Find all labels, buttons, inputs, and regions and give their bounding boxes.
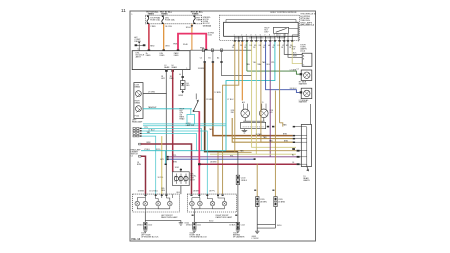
G_RIGHTCOL: [256, 45, 312, 167]
bundle end connector marks: [297, 150, 300, 165]
bulb A4: [168, 201, 173, 206]
connector mark on line at 203: [202, 49, 204, 52]
R3 pin stubs: [295, 127, 301, 143]
R3 bottom pin: [292, 148, 295, 150]
DRL module box: [132, 51, 190, 70]
svg-text:S220: S220: [156, 149, 160, 151]
wire pale BCM pin6: [255, 42, 257, 155]
svg-text:C2: C2: [131, 155, 133, 157]
svg-text:11: 11: [121, 8, 126, 13]
wire tan right vertical 2: [274, 91, 276, 197]
tick label left of vertical 1: [254, 190, 256, 191]
svg-text:C100 A2: C100 A2: [203, 25, 212, 28]
ground mid G103: [236, 230, 240, 232]
svg-text:2: 2: [241, 34, 242, 36]
node dot pink2: [205, 49, 208, 51]
lamp DRL indicator left: [241, 109, 250, 118]
svg-text:TAN/WHT: TAN/WHT: [148, 106, 157, 109]
cyan bus row 3: [142, 131, 208, 194]
svg-text:OF ENGINE BLOCK: OF ENGINE BLOCK: [141, 237, 159, 239]
wire tan BCM pin10 to R3: [279, 42, 281, 123]
ground drop lamp B: [193, 212, 195, 222]
wire tan bend into R3: [280, 123, 283, 127]
svg-text:B2: B2: [240, 45, 242, 47]
wire maroon dimmer to lampB: [141, 144, 192, 194]
wire dark brown: [205, 63, 238, 152]
svg-text:A5: A5: [306, 99, 308, 102]
svg-text:18 YEL: 18 YEL: [158, 177, 164, 179]
headlamp switch symbol: [195, 94, 197, 100]
svg-text:1: 1: [186, 68, 187, 70]
svg-text:LT GRN: LT GRN: [290, 70, 297, 72]
join wire lamp B to mid drop: [194, 221, 238, 223]
connector marks on tan rows: [267, 126, 269, 128]
svg-text:PNK: PNK: [173, 44, 178, 46]
wire teal bundle row: [141, 150, 226, 152]
svg-text:18 BRN: 18 BRN: [260, 201, 267, 203]
svg-text:PARK: PARK: [196, 18, 202, 21]
inline connector on mid drop: [236, 222, 239, 229]
node dot pink: [177, 49, 180, 51]
svg-text:C111: C111: [197, 224, 201, 226]
relay switch blade: [276, 28, 287, 32]
svg-text:DK BLU: DK BLU: [290, 88, 297, 90]
flat connector box: [241, 122, 266, 128]
bulb high beam: [136, 106, 142, 112]
svg-text:18 BLK: 18 BLK: [186, 224, 193, 226]
BCM internal top wire: [225, 20, 227, 23]
wire blue bundle row: [168, 158, 255, 160]
diode tail: [182, 90, 184, 92]
svg-text:LT GRN: LT GRN: [148, 92, 155, 94]
left bulb feed stubs: [242, 104, 244, 110]
bracket to box: [300, 151, 302, 165]
svg-text:PPL: PPL: [271, 62, 274, 64]
svg-text:YEL: YEL: [253, 62, 256, 64]
teal stub end mark: [165, 164, 167, 165]
wire tan BCM pin1: [234, 42, 236, 153]
svg-text:S141: S141: [208, 35, 212, 37]
wire purple bundle row: [168, 156, 297, 158]
inline connector C2: [236, 175, 239, 184]
svg-text:PARK/TURN LAMP: PARK/TURN LAMP: [216, 216, 233, 219]
wire pink drop to lamp B: [198, 111, 200, 194]
svg-text:18 BLK: 18 BLK: [229, 224, 236, 226]
svg-text:RED: RED: [150, 46, 155, 48]
box R1 rear lamps junction: [302, 53, 312, 66]
svg-text:7: 7: [264, 34, 265, 36]
wire gray BCM pin12 to R1: [288, 42, 302, 58]
lamp LP2 pin: [300, 91, 303, 93]
svg-text:B203: B203: [179, 95, 183, 97]
inline connector right1: [256, 197, 259, 207]
svg-text:RED: RED: [170, 78, 175, 80]
svg-text:18: 18: [232, 47, 234, 49]
bulb tails to bus: [244, 118, 246, 122]
G_GROUNDS: [137, 212, 245, 239]
svg-text:A4: A4: [217, 56, 219, 59]
svg-text:BEAM: BEAM: [135, 85, 141, 88]
inline connector right2: [274, 197, 277, 207]
cyan bus row 1: [143, 123, 226, 125]
right bulb feed stubs: [261, 104, 263, 110]
bulb low beam: [136, 91, 142, 97]
dimmer lower pin C: [139, 143, 141, 145]
dimmer block pin ticks: [140, 128, 142, 137]
fuse F1: [147, 16, 149, 23]
svg-text:HEAD: HEAD: [179, 118, 185, 121]
wire maroon dimmer to lampA: [141, 156, 146, 194]
wire tan BCM pin5: [261, 42, 293, 143]
svg-text:18: 18: [289, 47, 291, 49]
wire blue BCM pin7 to lamp2: [266, 42, 300, 93]
underhood fuse block dashed box: [145, 15, 201, 24]
pin marks under box: [165, 70, 168, 72]
teal option loop box: [187, 115, 195, 125]
svg-text:6: 6: [260, 34, 261, 36]
svg-text:C2: C2: [200, 57, 202, 59]
svg-text:18 BRN: 18 BRN: [278, 201, 285, 203]
BCM solid box U1: [224, 22, 299, 36]
wire tan bundle row right: [226, 150, 297, 152]
svg-text:LT BLU: LT BLU: [144, 149, 151, 151]
connector row under C100 line: [205, 50, 222, 63]
R3 pin marks: [293, 126, 295, 143]
connector C210 marks: [204, 61, 223, 63]
branch to G102: [145, 221, 181, 223]
wire pale yellow bundle row: [210, 153, 296, 155]
connector mark on line at 212: [211, 49, 213, 52]
wire orange from fuse F3: [191, 24, 193, 50]
flasher socket 1: [174, 177, 178, 181]
bulb B4: [222, 201, 227, 206]
svg-text:18 LT BLU: 18 LT BLU: [149, 191, 158, 193]
bulb B1: [190, 201, 195, 206]
teal stub to bundle: [165, 151, 167, 165]
ground G100: [192, 230, 196, 232]
G_BCM: [220, 12, 317, 41]
wire dark mid vertical with connector: [237, 152, 239, 176]
wire orange from fuse F2: [163, 24, 165, 51]
svg-text:D4: D4: [250, 45, 252, 47]
svg-text:2 RED: 2 RED: [150, 26, 156, 28]
lamp assembly B dashed box: [187, 194, 236, 212]
wire pale BCM pin13 to R1: [292, 42, 302, 64]
right headlamp box R3: [301, 125, 311, 167]
BCM internal pin brackets: [235, 29, 298, 42]
svg-text:ASSY: ASSY: [190, 179, 196, 182]
wire tan BCM pin3 to R3: [246, 42, 248, 72]
svg-text:BODY CONTROL MODULE: BODY CONTROL MODULE: [271, 12, 298, 14]
svg-text:18 BRN: 18 BRN: [198, 68, 205, 70]
ground right G401: [255, 231, 259, 233]
svg-text:18 PPL: 18 PPL: [209, 191, 215, 193]
lamp R LP1 box: [301, 70, 312, 80]
tick label left of vertical 2: [272, 190, 274, 191]
svg-text:9: 9: [274, 34, 275, 36]
wire pale BCM pin4: [252, 42, 296, 148]
flasher socket arrows: [174, 176, 185, 181]
svg-text:C110: C110: [148, 224, 152, 226]
node dot red: [148, 49, 151, 51]
flasher socket 2: [179, 177, 183, 181]
bulb LP1: [304, 72, 310, 78]
svg-text:M3: M3: [286, 45, 289, 47]
pin line with end marks: [135, 44, 145, 46]
bottom double horizontals: [257, 224, 275, 226]
svg-text:(DRL) SEE 11-2: (DRL) SEE 11-2: [300, 25, 314, 27]
svg-text:11: 11: [283, 34, 285, 36]
svg-text:C1: C1: [297, 68, 299, 70]
svg-text:12 BRN: 12 BRN: [214, 92, 221, 94]
fuse F3: [193, 16, 195, 23]
junction dot pink/maroon: [198, 163, 201, 165]
node S161: [180, 169, 182, 170]
wire tan mid: [232, 118, 293, 142]
svg-text:OF ENGINE BLOCK: OF ENGINE BLOCK: [189, 237, 207, 239]
svg-text:4: 4: [250, 34, 251, 36]
svg-text:18 TAN: 18 TAN: [256, 133, 263, 136]
svg-text:C2: C2: [137, 48, 139, 50]
svg-text:A8: A8: [292, 148, 294, 151]
cyan bus row 4: [142, 134, 197, 151]
lamp LP1 pin: [300, 73, 303, 75]
svg-text:C112: C112: [241, 224, 245, 226]
cyan bus row 1b: [143, 125, 226, 127]
turn signal flasher box: [173, 172, 190, 186]
svg-text:18 BLK: 18 BLK: [137, 224, 144, 226]
svg-text:LT KICK: LT KICK: [252, 238, 260, 240]
svg-text:FEED: FEED: [146, 55, 151, 57]
svg-text:B2: B2: [292, 155, 294, 157]
svg-text:PPL: PPL: [173, 155, 176, 157]
ground G102: [179, 223, 183, 225]
pin stub OUT with diode D1: [182, 70, 184, 81]
wire teal headlamp high: [143, 108, 192, 110]
wire black from LP2 to R3: [310, 104, 312, 125]
bulb B3: [210, 201, 215, 206]
bulb LP2: [304, 90, 310, 96]
tan bundle wire labels row: [246, 61, 274, 66]
wire tan drop to lamp B: [217, 152, 219, 194]
svg-text:H8: H8: [268, 45, 270, 47]
wire crimson from DRL HI: [172, 70, 174, 172]
blue row end mark: [254, 158, 256, 160]
BCM dashed box: [220, 15, 300, 40]
flasher feed wire: [180, 168, 182, 172]
wire orange BCM pin2: [241, 42, 243, 101]
ground G101: [143, 230, 147, 232]
svg-text:C4: C4: [292, 162, 294, 164]
wire yellow drop to lamp A: [161, 136, 163, 194]
BCM pin connector marks: [234, 40, 294, 41]
wire tan right vertical 1: [256, 163, 258, 196]
svg-text:S161: S161: [175, 167, 179, 169]
lamp B internal wires: [192, 194, 225, 212]
wire teal vertical: [226, 42, 275, 151]
connector tail down: [237, 185, 239, 230]
svg-text:8: 8: [269, 34, 270, 36]
svg-text:HEADLAMP: HEADLAMP: [132, 120, 143, 123]
svg-text:18 BRN: 18 BRN: [138, 191, 145, 193]
svg-text:K1: K1: [278, 45, 280, 47]
wire green to right lamp1: [247, 71, 300, 74]
lamp A entry pin marks: [145, 195, 168, 196]
arrow to rear lamps: [307, 167, 309, 171]
svg-text:P100: P100: [135, 115, 139, 117]
headlamp dimmer switch connector rows: [133, 128, 139, 137]
svg-text:10: 10: [278, 34, 280, 36]
bulb B2: [198, 201, 203, 206]
tick label on B drop: [192, 215, 194, 216]
svg-text:PARK/TURN LAMP: PARK/TURN LAMP: [161, 216, 178, 219]
svg-text:FIG. 14: FIG. 14: [132, 237, 141, 241]
svg-text:18: 18: [281, 47, 283, 49]
svg-text:PPL: PPL: [230, 155, 233, 157]
svg-text:18 BLK: 18 BLK: [241, 180, 248, 182]
cyan bus row 2: [142, 129, 202, 151]
svg-text:1: 1: [234, 34, 235, 36]
svg-text:F6: F6: [259, 45, 261, 47]
splice triangle below text: [138, 42, 140, 44]
inline connector on lamp B drop: [193, 222, 196, 229]
svg-text:18: 18: [244, 47, 246, 49]
bulb A1: [135, 201, 140, 206]
ground below flat box: [243, 129, 245, 131]
svg-text:S130: S130: [209, 220, 213, 222]
lamp indicator right: [260, 109, 269, 118]
wire brown: [213, 63, 293, 136]
headlamp LH box: [134, 83, 143, 119]
relay sub-box inside BCM: [274, 27, 289, 33]
svg-text:BEAM: BEAM: [172, 66, 178, 69]
G_MIDWIRES: [138, 42, 303, 195]
lamp assembly A dashed box: [133, 194, 180, 212]
svg-text:FUSE 20A: FUSE 20A: [165, 18, 175, 21]
svg-text:18 BRN: 18 BRN: [210, 161, 217, 163]
svg-text:5: 5: [255, 34, 256, 36]
svg-text:MARKER: MARKER: [299, 83, 308, 86]
svg-text:18 ORG: 18 ORG: [165, 26, 172, 28]
connector mark on line at 221: [220, 49, 222, 52]
bulb ground bus: [243, 120, 264, 122]
G_TOPLEFT: [134, 11, 251, 52]
cyan drop to lamp A: [142, 136, 156, 194]
bundle left end marks: [167, 156, 169, 158]
svg-text:18: 18: [272, 47, 274, 49]
diode D1: [180, 81, 185, 90]
wire gray BCM pin11 to R1: [284, 42, 302, 55]
R3 internal pin stubs: [301, 127, 307, 165]
svg-text:FUSE 15A: FUSE 15A: [150, 18, 160, 21]
svg-text:LT BLU: LT BLU: [227, 99, 234, 101]
wire tan BCM pin1b to lamp B: [223, 42, 239, 195]
bulb A3: [156, 201, 161, 206]
svg-text:ORG: ORG: [165, 46, 170, 48]
flasher socket 3: [184, 177, 188, 181]
lamp B entry pin marks: [191, 195, 224, 196]
flasher tail wire: [180, 186, 182, 195]
svg-text:FEED: FEED: [174, 55, 179, 57]
wire red from fuse F1: [148, 24, 150, 51]
svg-text:PPL: PPL: [145, 127, 148, 129]
R3 internal bus: [306, 127, 308, 165]
svg-text:B1: B1: [208, 57, 210, 59]
svg-text:S410: S410: [277, 225, 281, 227]
splice node S1: [191, 25, 194, 27]
lamp R LP2 box: [301, 88, 312, 98]
svg-text:3: 3: [246, 34, 247, 36]
G_LEFTBOX: [131, 51, 192, 194]
wire tan bundle row short: [218, 151, 252, 153]
svg-text:I/P CARRIER: I/P CARRIER: [233, 236, 245, 239]
svg-text:(11-4): (11-4): [300, 51, 305, 53]
connector line C100: [190, 49, 252, 51]
node dot orange: [162, 49, 165, 51]
wire black headlamp low: [143, 93, 166, 95]
wire black jog: [222, 63, 252, 76]
wire gray from DRL LO: [165, 70, 167, 195]
svg-text:LAMPS: LAMPS: [303, 179, 310, 182]
dimmer lower pin D: [139, 155, 141, 157]
frame border: [130, 11, 316, 241]
svg-text:BEAM: BEAM: [164, 66, 170, 69]
misc wire id labels: [160, 44, 292, 163]
tick label on mid drop: [235, 215, 237, 216]
tails to bottom joins: [256, 207, 258, 225]
inline connector on lamp A drop: [144, 222, 147, 229]
BCM pin stubs: [235, 36, 292, 41]
lamp A internal wires: [137, 194, 172, 212]
svg-text:12: 12: [287, 34, 289, 36]
svg-text:12 BRN: 12 BRN: [206, 99, 213, 101]
svg-text:FEED: FEED: [160, 55, 165, 57]
G_BUNDLE: [141, 91, 310, 241]
G_LAMPS: [133, 194, 237, 219]
bulb A2: [143, 201, 148, 206]
svg-text:BEAM: BEAM: [135, 102, 141, 105]
wire purple BCM pin8: [269, 42, 271, 157]
svg-text:RELAY: RELAY: [134, 40, 141, 43]
svg-text:18: 18: [263, 47, 265, 49]
ground drop lamp A: [144, 212, 146, 222]
fuse F2: [162, 16, 164, 23]
svg-text:ASSY: ASSY: [136, 56, 142, 59]
wire pink loop: [178, 34, 206, 51]
svg-text:18: 18: [253, 47, 255, 49]
wire maroon bundle row: [199, 163, 296, 165]
